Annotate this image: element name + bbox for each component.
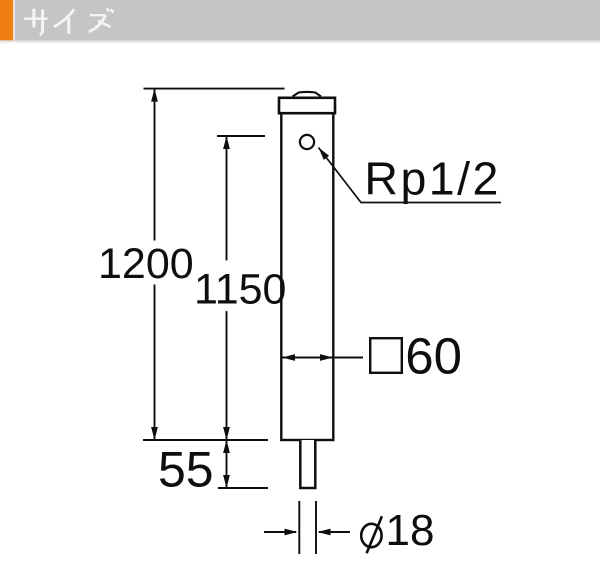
hydrant cap dome [293,92,322,97]
dimension line 1200 upper segment [154,89,156,241]
svg-text:Rp1/2: Rp1/2 [364,153,498,205]
dimension line 55 [226,440,228,488]
phi18 extension line right [315,501,317,554]
arrow 1150 bottom [223,427,230,440]
arrow 55 bottom [223,475,230,488]
header title katakana ZU [89,8,114,31]
extension line top (1200) [144,88,285,90]
square 60 symbol [370,338,402,373]
hydrant cap [279,98,335,113]
spigot pipe [300,440,315,488]
svg-text:55: 55 [158,442,214,498]
dimension line 1150 upper segment [226,137,228,261]
leader arrowhead Rp1/2 [319,148,330,160]
tap hole circle [300,135,314,149]
dimension line 60 with tail [282,357,363,359]
header orange block [0,0,13,40]
header title katakana I [54,9,74,33]
phi symbol ellipse [361,524,381,547]
arrow 1200 bottom [151,427,158,440]
svg-text:1200: 1200 [98,240,194,288]
extension line 1150 top [217,135,265,137]
phi18 right arrow line [319,531,350,533]
arrow 1200 top [151,89,158,102]
phi18 extension line left [298,501,300,554]
arrow 1150 top [223,136,230,149]
extension line bottom shared [143,439,268,441]
dimension line 1150 lower segment [226,311,228,440]
phi18 left arrowhead [285,529,298,536]
arrow 55 top [223,440,230,453]
svg-text:18: 18 [386,506,435,555]
extension line 55 bottom [218,487,268,489]
leader line Rp1/2 [319,148,502,203]
phi18 left arrow line [264,531,296,533]
phi18 right arrowhead [318,529,331,536]
svg-text:1150: 1150 [194,266,286,314]
header bottom fade [0,40,600,45]
arrow 60 left [282,354,295,361]
hydrant body [281,113,333,440]
svg-text:60: 60 [405,328,462,385]
arrow 60 right [320,354,333,361]
dimension line 1200 lower segment [154,285,156,441]
header title katakana SA [24,9,48,35]
phi symbol stem [367,516,382,553]
header gray bar [15,0,600,40]
